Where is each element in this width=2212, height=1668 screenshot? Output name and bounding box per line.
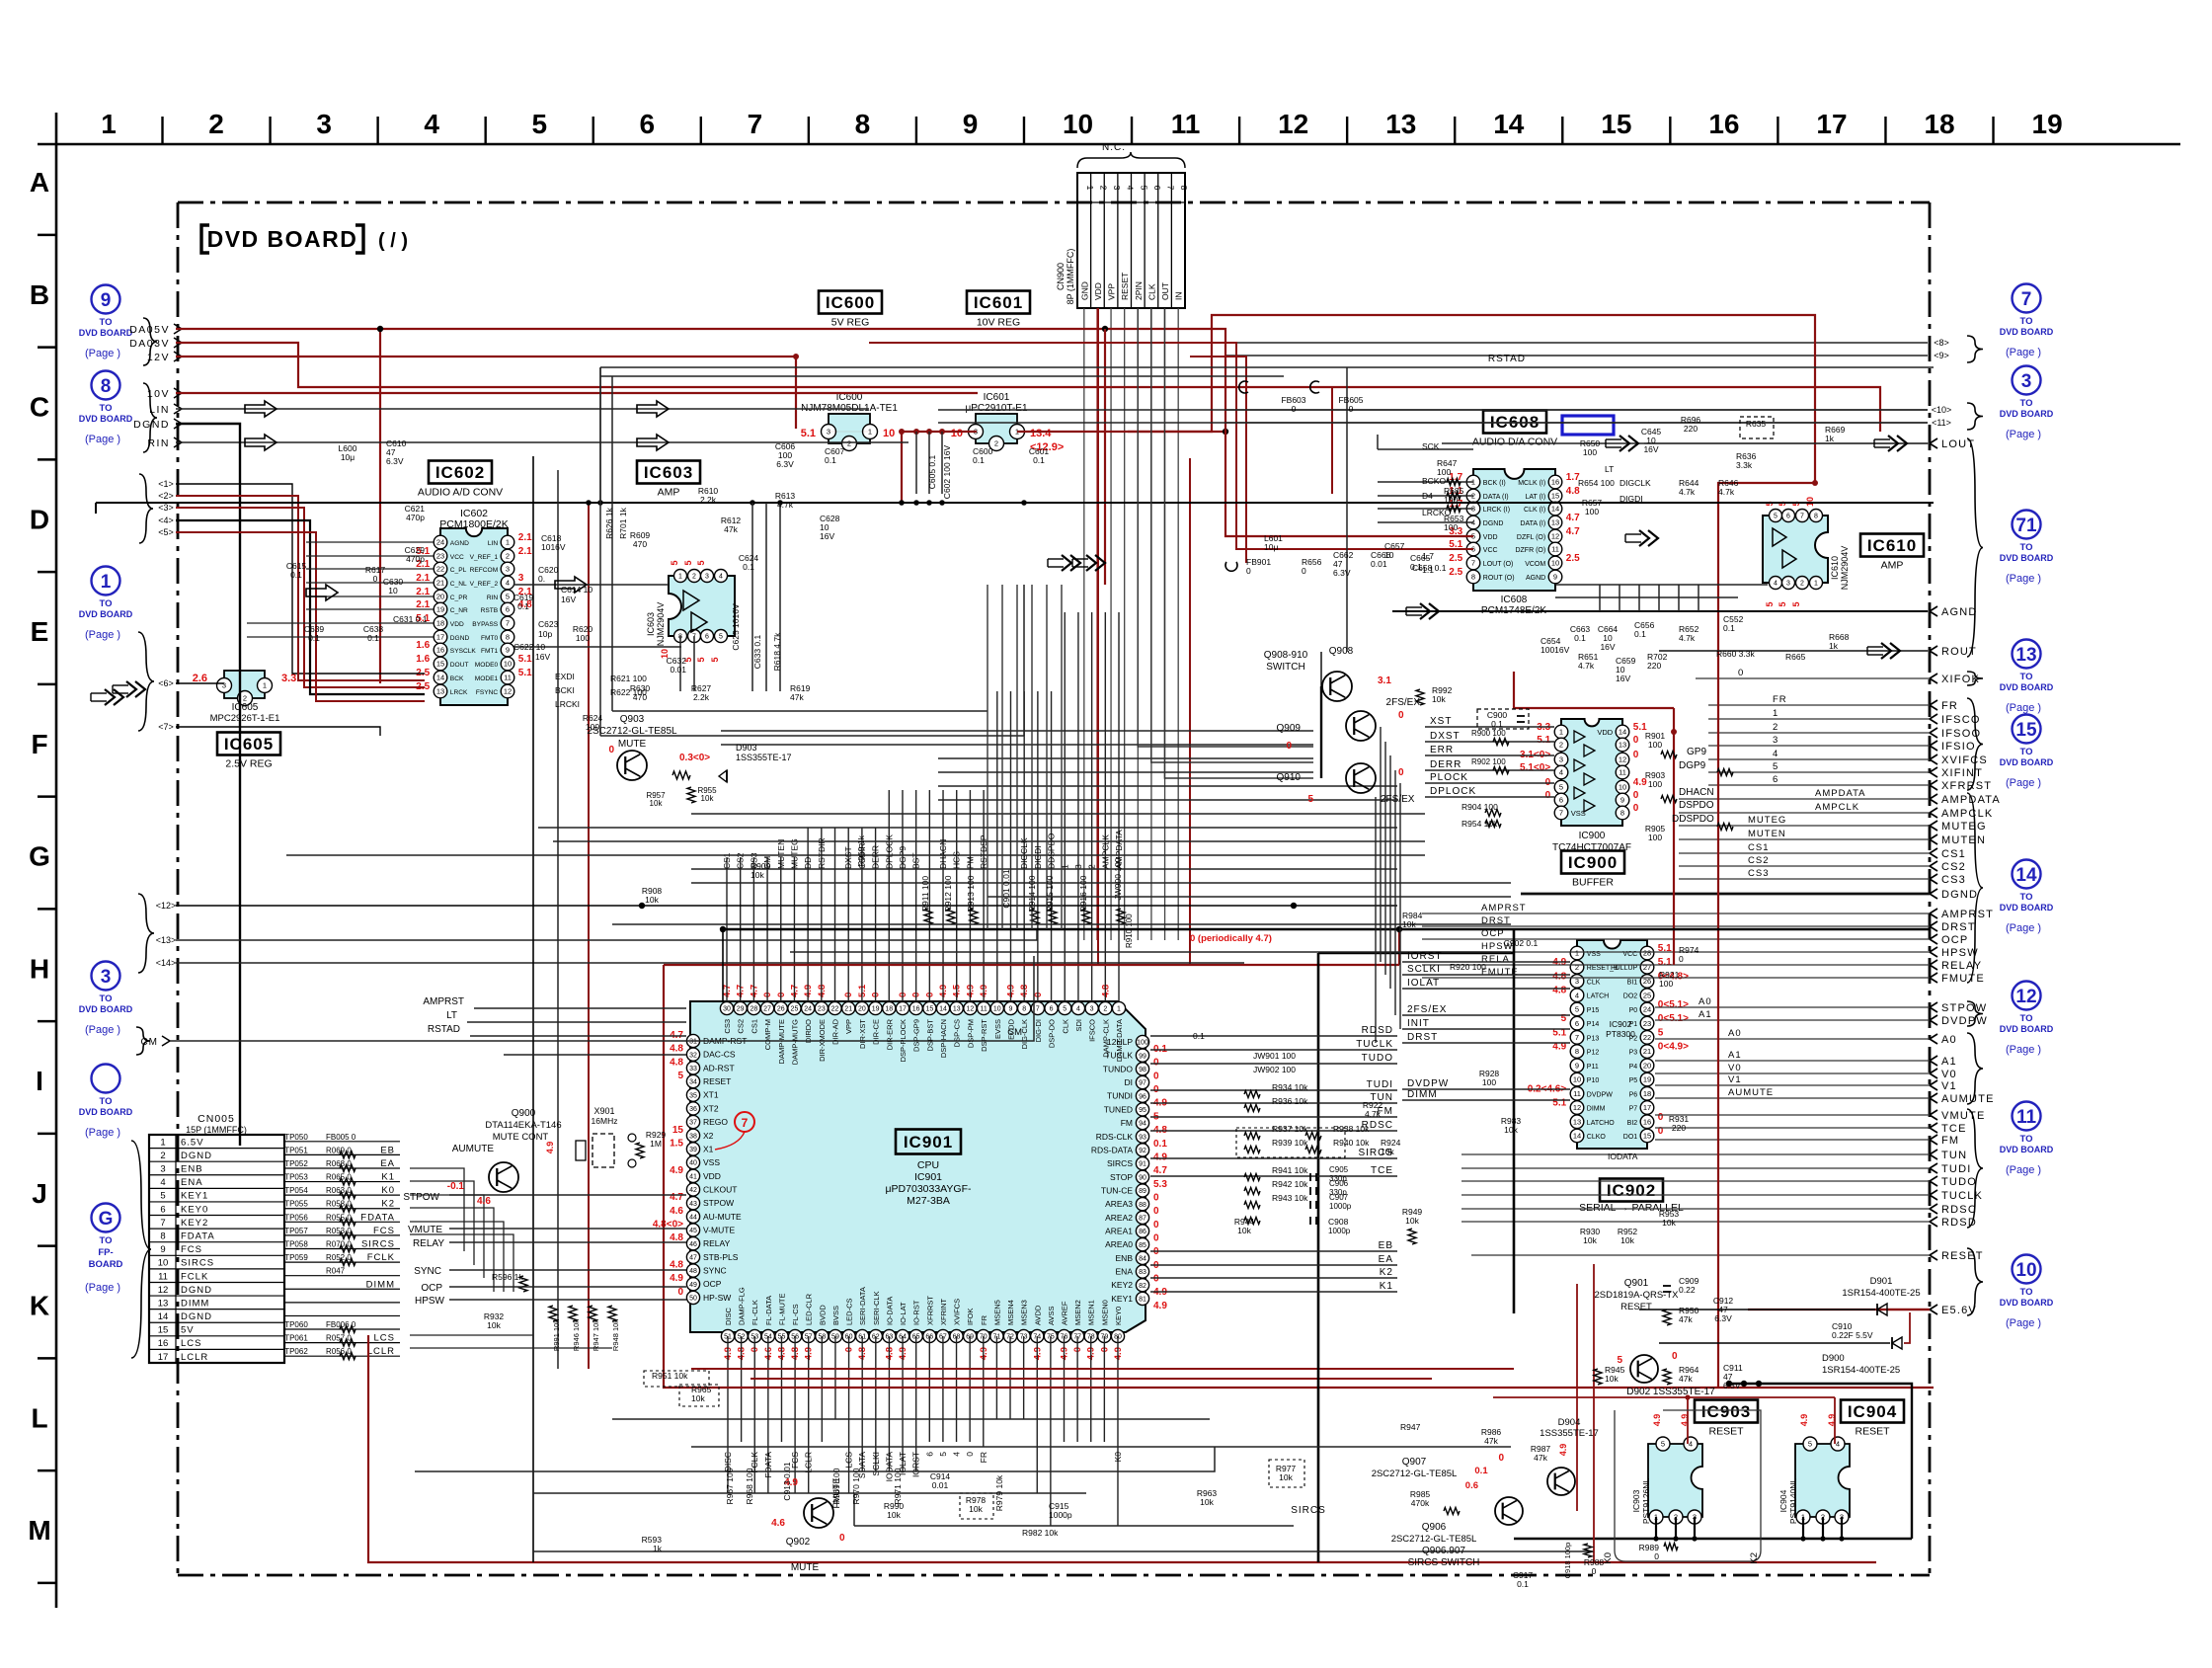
svg-text:6: 6: [1575, 1019, 1579, 1028]
svg-text:DIMM: DIMM: [366, 1279, 395, 1290]
svg-text:10k: 10k: [1405, 1216, 1419, 1226]
svg-text:14: 14: [1573, 1132, 1581, 1141]
svg-text:FL-DATA: FL-DATA: [764, 1296, 773, 1325]
svg-text:TUDI: TUDI: [1367, 1079, 1393, 1090]
svg-text:15P (1MMFFC): 15P (1MMFFC): [186, 1125, 247, 1135]
svg-text:5.1: 5.1: [1537, 735, 1550, 746]
svg-text:3: 3: [101, 967, 112, 988]
regulator IC605: [193, 671, 297, 724]
svg-text:CLKO: CLKO: [1587, 1134, 1607, 1141]
svg-text:4.8: 4.8: [1552, 986, 1566, 996]
svg-text:8: 8: [1814, 514, 1818, 520]
svg-text:2PIN: 2PIN: [1134, 281, 1144, 300]
svg-text:28: 28: [1643, 949, 1651, 958]
svg-text:13: 13: [1573, 1117, 1581, 1126]
svg-text:TUNDI: TUNDI: [1107, 1091, 1133, 1101]
svg-text:DAMP-FLG: DAMP-FLG: [738, 1287, 747, 1325]
svg-text:A: A: [30, 167, 49, 198]
svg-text:AREA0: AREA0: [1105, 1239, 1133, 1249]
svg-text:PM: PM: [965, 856, 975, 869]
svg-text:39: 39: [689, 1147, 697, 1153]
svg-text:GND: GND: [1079, 281, 1089, 300]
red ref circle 7: [735, 1112, 754, 1132]
svg-text:STB-PLS: STB-PLS: [703, 1252, 739, 1262]
labels middle area: [642, 551, 1699, 1245]
svg-text:AUMUTE: AUMUTE: [1728, 1087, 1774, 1098]
svg-text:FSYNC: FSYNC: [476, 689, 499, 696]
svg-text:3: 3: [222, 681, 226, 690]
svg-text:MUTEN: MUTEN: [1941, 834, 1986, 846]
svg-text:XFRRST: XFRRST: [1941, 780, 1992, 792]
component labels top-left area: [286, 395, 1850, 732]
svg-text:D: D: [30, 504, 49, 534]
svg-text:AVSS: AVSS: [1047, 1307, 1056, 1325]
svg-text:10k: 10k: [1662, 1218, 1676, 1228]
svg-text:SIRCS: SIRCS: [361, 1239, 395, 1250]
svg-text:47k: 47k: [790, 692, 804, 702]
svg-text:-0.1: -0.1: [447, 1181, 465, 1192]
regulator IC601: [951, 392, 1065, 453]
svg-text:95: 95: [1139, 1107, 1146, 1114]
svg-text:10k: 10k: [691, 1393, 705, 1403]
svg-text:CPU: CPU: [917, 1159, 939, 1171]
svg-text:DISC: DISC: [724, 1307, 733, 1325]
svg-text:AMPRST: AMPRST: [1481, 903, 1527, 913]
svg-text:4.9: 4.9: [545, 1142, 555, 1154]
svg-text:100: 100: [1659, 979, 1673, 989]
svg-text:FL-CLK: FL-CLK: [750, 1300, 759, 1325]
svg-text:ENA: ENA: [181, 1177, 203, 1188]
svg-text:3.3k: 3.3k: [1736, 460, 1753, 470]
svg-text:4.7k: 4.7k: [1679, 487, 1696, 497]
svg-text:1: 1: [1575, 949, 1579, 958]
transistor Q906: [1495, 1497, 1523, 1525]
svg-text:DGND: DGND: [450, 635, 470, 642]
svg-text:LCLR: LCLR: [804, 1452, 814, 1473]
black signal wires: [96, 354, 1934, 1562]
svg-text:100: 100: [576, 633, 590, 643]
svg-text:R971 100: R971 100: [893, 1468, 903, 1504]
label box IC605: [217, 733, 280, 770]
svg-text:BYPASS: BYPASS: [472, 621, 499, 628]
IC904 reset chip: [1778, 1414, 1850, 1524]
svg-text:DATA (I): DATA (I): [1520, 520, 1545, 527]
svg-text:AUDIO D/A CONV: AUDIO D/A CONV: [1472, 437, 1557, 448]
svg-text:1000p: 1000p: [1329, 1202, 1352, 1211]
svg-text:3: 3: [827, 428, 830, 437]
svg-text:0: 0: [1153, 1206, 1159, 1217]
svg-text:R902 100: R902 100: [1471, 757, 1506, 766]
svg-text:20: 20: [436, 593, 444, 601]
svg-text:4.7k: 4.7k: [777, 500, 794, 510]
svg-text:100: 100: [1585, 507, 1599, 516]
svg-text:10k: 10k: [650, 799, 664, 808]
svg-text:15: 15: [1601, 109, 1631, 139]
svg-text:TO: TO: [2019, 542, 2032, 553]
CN005 right-side resistor links: [284, 1133, 400, 1360]
svg-text:R053 0: R053 0: [326, 1227, 352, 1235]
svg-text:5: 5: [1774, 514, 1777, 520]
svg-text:IC601: IC601: [974, 293, 1023, 312]
svg-text:PCM1800E/2K: PCM1800E/2K: [439, 518, 508, 530]
svg-text:15: 15: [1643, 1132, 1651, 1141]
svg-text:VDD: VDD: [1483, 534, 1498, 541]
svg-text:RESET: RESET: [1620, 1302, 1652, 1312]
svg-text:(Page ): (Page ): [2006, 702, 2041, 714]
svg-text:2FS/EX: 2FS/EX: [1386, 697, 1421, 708]
svg-text:26: 26: [777, 1006, 785, 1013]
svg-text:DIMM: DIMM: [1587, 1106, 1606, 1113]
svg-text:5: 5: [1808, 1440, 1812, 1449]
label box IC603: [637, 461, 700, 499]
svg-text:DVD BOARD: DVD BOARD: [2000, 409, 2054, 419]
svg-text:A0: A0: [1728, 1028, 1742, 1039]
svg-text:8: 8: [1022, 1006, 1026, 1013]
svg-text:3: 3: [506, 565, 510, 574]
svg-text:LAT (I): LAT (I): [1525, 494, 1545, 501]
svg-text:MUTEG: MUTEG: [789, 838, 799, 869]
svg-text:EA: EA: [1379, 1254, 1393, 1265]
svg-text:100: 100: [1648, 779, 1662, 789]
svg-text:98: 98: [1139, 1067, 1146, 1073]
svg-text:V_REF_1: V_REF_1: [470, 554, 499, 561]
svg-text:6: 6: [1773, 774, 1778, 785]
svg-text:RESET: RESET: [1941, 1250, 1984, 1262]
svg-text:A1: A1: [1941, 1056, 1957, 1068]
svg-text:R915 100: R915 100: [1045, 875, 1055, 912]
svg-text:3: 3: [316, 109, 332, 139]
svg-text:5: 5: [1559, 783, 1563, 792]
svg-text:16V: 16V: [535, 652, 550, 662]
svg-text:NJM2904V: NJM2904V: [1840, 546, 1850, 591]
svg-text:ROUT (O): ROUT (O): [1483, 575, 1515, 582]
svg-text:19: 19: [872, 1006, 880, 1013]
svg-text:470: 470: [633, 539, 647, 549]
label box IC610: [1860, 534, 1924, 572]
svg-text:R959 1k: R959 1k: [856, 834, 866, 866]
svg-text:VDD: VDD: [1597, 728, 1613, 737]
svg-text:13: 13: [953, 1006, 961, 1013]
svg-text:LRCK: LRCK: [450, 689, 468, 696]
page ref 71: [2000, 511, 2054, 586]
svg-text:DVD BOARD: DVD BOARD: [207, 226, 358, 252]
CN900 wires down: [1084, 308, 1178, 940]
svg-text:5.1: 5.1: [1658, 957, 1672, 968]
svg-text:7: 7: [506, 619, 510, 628]
svg-text:6: 6: [1050, 1006, 1054, 1013]
svg-text:R065 0: R065 0: [326, 1173, 352, 1182]
E5.6V red feed: [1930, 1305, 1937, 1314]
title DVD BOARD: [201, 225, 408, 253]
svg-text:R916 100: R916 100: [1078, 875, 1088, 912]
svg-text:1M: 1M: [650, 1139, 662, 1149]
svg-text:8: 8: [1471, 573, 1475, 582]
left input signals group B: [129, 318, 182, 452]
svg-text:STPOW: STPOW: [1941, 1002, 1987, 1014]
svg-text:DVD BOARD: DVD BOARD: [79, 1004, 133, 1014]
svg-text:MUTEN: MUTEN: [776, 839, 786, 869]
svg-text:BCK (I): BCK (I): [1483, 480, 1506, 487]
svg-text:IFOK: IFOK: [966, 1308, 975, 1325]
svg-text:(Page ): (Page ): [2006, 1164, 2041, 1176]
svg-text:6: 6: [506, 605, 510, 614]
svg-text:R946 10k: R946 10k: [572, 1319, 581, 1351]
svg-text:R635: R635: [1746, 419, 1767, 429]
svg-text:B: B: [30, 279, 49, 310]
svg-text:DSP-DO: DSP-DO: [1048, 1019, 1057, 1048]
svg-text:2SC2712-GL-TE85L: 2SC2712-GL-TE85L: [1372, 1469, 1458, 1479]
svg-text:MUTEG: MUTEG: [1748, 815, 1786, 826]
svg-text:MODE0: MODE0: [475, 662, 499, 669]
svg-text:SIRCS: SIRCS: [181, 1258, 214, 1269]
svg-text:DIGDI: DIGDI: [1619, 494, 1643, 504]
svg-text:1.7: 1.7: [1422, 551, 1434, 561]
svg-text:(Page ): (Page ): [2006, 573, 2041, 585]
svg-text:TP057: TP057: [284, 1227, 308, 1235]
transistors Q908 Q909 Q910 switch: [1264, 646, 1453, 805]
svg-text:DVDPW: DVDPW: [1941, 1015, 1988, 1027]
CN005 to right long links: [410, 1168, 612, 1348]
svg-text:C_NR: C_NR: [450, 607, 468, 614]
svg-text:1: 1: [1814, 581, 1818, 588]
svg-text:10k: 10k: [1583, 1235, 1597, 1245]
svg-text:7: 7: [1166, 186, 1176, 191]
chevron arrows: [91, 436, 1907, 705]
svg-text:μPD703033AYGF-: μPD703033AYGF-: [886, 1183, 972, 1195]
svg-text:FL-MUTE: FL-MUTE: [777, 1294, 786, 1326]
svg-text:LRCKI: LRCKI: [555, 699, 580, 709]
svg-text:7: 7: [160, 1218, 165, 1229]
svg-text:IC603: IC603: [644, 463, 693, 482]
svg-text:2.2k: 2.2k: [700, 495, 717, 505]
svg-text:4: 4: [424, 109, 439, 139]
svg-text:32: 32: [689, 1052, 697, 1059]
svg-text:23: 23: [1643, 1019, 1651, 1028]
svg-text:9: 9: [1009, 1006, 1013, 1013]
svg-text:18: 18: [436, 619, 444, 628]
svg-text:470p: 470p: [406, 554, 425, 564]
svg-text:D900: D900: [1822, 1353, 1845, 1364]
svg-text:DVD BOARD: DVD BOARD: [79, 1107, 133, 1117]
svg-text:21: 21: [1643, 1047, 1651, 1056]
svg-text:0.1: 0.1: [308, 633, 320, 643]
svg-text:(Page ): (Page ): [85, 1024, 120, 1036]
svg-text:5: 5: [683, 560, 693, 565]
svg-text:0: 0: [1153, 1071, 1159, 1081]
svg-text:DIRDO: DIRDO: [804, 1019, 813, 1043]
svg-text:RELAY: RELAY: [413, 1238, 444, 1249]
svg-text:0.1: 0.1: [367, 633, 379, 643]
svg-text:4: 4: [952, 1452, 962, 1457]
svg-text:5: 5: [1765, 601, 1775, 606]
bundle resistors above IC901: [924, 909, 1125, 924]
svg-text:(Page ): (Page ): [2006, 1044, 2041, 1056]
svg-text:0.1: 0.1: [290, 570, 302, 580]
svg-text:10: 10: [883, 428, 895, 439]
svg-text:RESET: RESET: [703, 1076, 731, 1086]
svg-text:R920 100: R920 100: [1450, 962, 1486, 972]
svg-text:R910 100: R910 100: [1125, 913, 1134, 948]
svg-text:BCKO: BCKO: [1422, 476, 1446, 486]
svg-text:6: 6: [1152, 186, 1162, 191]
svg-text:1: 1: [1117, 1006, 1121, 1013]
svg-text:6: 6: [160, 1204, 165, 1215]
svg-text:1: 1: [678, 574, 682, 581]
svg-text:IO-DATA: IO-DATA: [885, 1297, 894, 1325]
svg-text:3.3: 3.3: [281, 673, 296, 684]
svg-text:IFSIO: IFSIO: [1941, 741, 1976, 753]
svg-text:TP058: TP058: [284, 1240, 308, 1249]
svg-text:RDS-DATA: RDS-DATA: [1091, 1145, 1134, 1154]
svg-text:7: 7: [1575, 1033, 1579, 1042]
svg-text:LOUT (O): LOUT (O): [1483, 561, 1514, 568]
svg-text:40: 40: [689, 1160, 697, 1167]
svg-text:4.7k: 4.7k: [1365, 1109, 1382, 1119]
svg-text:DRST: DRST: [1407, 1032, 1438, 1043]
svg-text:2: 2: [1103, 1006, 1107, 1013]
svg-text:H: H: [30, 953, 49, 984]
svg-text:44: 44: [689, 1214, 697, 1221]
svg-text:R934 10k: R934 10k: [1272, 1082, 1308, 1092]
svg-text:RSTB: RSTB: [481, 607, 499, 614]
svg-text:R991 10k: R991 10k: [552, 1319, 561, 1351]
svg-text:R063 0: R063 0: [326, 1186, 352, 1195]
svg-text:29: 29: [737, 1006, 745, 1013]
svg-text:<4>: <4>: [158, 516, 174, 525]
svg-text:7: 7: [1036, 1006, 1040, 1013]
svg-text:2.1: 2.1: [518, 546, 532, 557]
svg-text:E: E: [31, 616, 49, 647]
svg-text:KEY2: KEY2: [181, 1218, 208, 1229]
svg-text:11: 11: [504, 674, 512, 682]
svg-text:DIR-XST: DIR-XST: [858, 1019, 867, 1049]
svg-text:R056 0: R056 0: [326, 1347, 352, 1356]
svg-text:6: 6: [924, 1452, 934, 1457]
svg-text:3: 3: [160, 1164, 165, 1175]
svg-text:CN900: CN900: [1056, 263, 1066, 290]
svg-text:DVD BOARD: DVD BOARD: [2000, 1145, 2054, 1154]
svg-text:PT8300: PT8300: [1606, 1029, 1635, 1039]
svg-text:Q902: Q902: [786, 1537, 811, 1548]
svg-text:7: 7: [1559, 809, 1563, 818]
svg-text:TP052: TP052: [284, 1159, 308, 1168]
svg-text:14: 14: [436, 674, 444, 682]
svg-text:5: 5: [696, 560, 706, 565]
svg-text:0.1: 0.1: [1634, 629, 1646, 639]
svg-text:0.1: 0.1: [1474, 1466, 1488, 1476]
svg-text:6.3V: 6.3V: [1723, 1381, 1741, 1390]
svg-text:DVD BOARD: DVD BOARD: [2000, 1024, 2054, 1034]
svg-text:10k: 10k: [1605, 1374, 1619, 1384]
svg-text:5: 5: [938, 1452, 948, 1457]
svg-text:5: 5: [1791, 601, 1801, 606]
svg-text:LCS: LCS: [181, 1338, 201, 1349]
svg-text:0.1: 0.1: [825, 455, 836, 465]
svg-text:91: 91: [1139, 1161, 1146, 1168]
svg-text:XT1: XT1: [703, 1090, 719, 1100]
svg-text:13: 13: [436, 687, 444, 696]
svg-text:AMPRST: AMPRST: [1941, 909, 1994, 920]
svg-text:R052 0: R052 0: [326, 1253, 352, 1262]
svg-text:4.8: 4.8: [670, 1057, 683, 1068]
page ref 1: [79, 567, 133, 642]
svg-text:BI2: BI2: [1627, 1120, 1638, 1127]
svg-text:DXST: DXST: [843, 846, 853, 869]
svg-text:CS1: CS1: [1748, 842, 1769, 853]
svg-text:LT: LT: [1605, 464, 1614, 474]
svg-text:AMPCLK: AMPCLK: [1100, 834, 1110, 869]
svg-text:17: 17: [1816, 109, 1847, 139]
svg-text:8: 8: [1620, 809, 1624, 818]
svg-text:10: 10: [993, 1006, 1001, 1013]
svg-text:R941 10k: R941 10k: [1272, 1165, 1308, 1175]
svg-text:A0: A0: [1698, 996, 1712, 1007]
svg-text:PST9126NL: PST9126NL: [1641, 1478, 1651, 1525]
svg-text:1: 1: [868, 428, 872, 437]
svg-text:OCP: OCP: [421, 1283, 442, 1294]
svg-text:R940 10k: R940 10k: [1333, 1138, 1370, 1148]
svg-text:SIRCS: SIRCS: [1107, 1158, 1133, 1168]
svg-text:AMP: AMP: [658, 487, 680, 499]
svg-text:SYNC: SYNC: [414, 1266, 441, 1277]
svg-text:2FS/EX: 2FS/EX: [1381, 794, 1415, 805]
svg-text:KEY0: KEY0: [181, 1204, 208, 1215]
IC610 amp chip: [1763, 497, 1850, 607]
svg-text:RDS-CLK: RDS-CLK: [1096, 1132, 1134, 1142]
svg-text:15: 15: [158, 1325, 169, 1336]
svg-text:INIT: INIT: [1407, 1018, 1430, 1029]
svg-text:KEY0: KEY0: [1114, 1307, 1123, 1325]
svg-text:K0: K0: [1603, 1552, 1614, 1564]
label box IC902: [1600, 1179, 1663, 1202]
svg-text:7: 7: [1471, 559, 1475, 568]
svg-text:4: 4: [1575, 991, 1579, 999]
svg-text:(Page ): (Page ): [85, 1127, 120, 1139]
svg-text:9: 9: [101, 290, 112, 311]
svg-text:DPLOCK: DPLOCK: [1430, 786, 1476, 797]
svg-text:TO: TO: [99, 317, 112, 328]
svg-text:AGND: AGND: [450, 540, 469, 547]
svg-text:0.1: 0.1: [1410, 562, 1422, 572]
svg-text:47k: 47k: [1679, 1314, 1693, 1324]
svg-text:99: 99: [1139, 1053, 1146, 1060]
svg-text:D904: D904: [1558, 1417, 1581, 1428]
svg-text:10k: 10k: [487, 1320, 501, 1330]
svg-text:TP050: TP050: [284, 1133, 308, 1142]
svg-text:A1: A1: [1728, 1050, 1742, 1061]
svg-text:24: 24: [804, 1006, 812, 1013]
svg-text:12: 12: [1619, 755, 1626, 764]
svg-text:1: 1: [506, 538, 510, 547]
svg-text:V0: V0: [1941, 1069, 1957, 1080]
svg-text:R937 10k: R937 10k: [1272, 1124, 1308, 1134]
svg-text:TP054: TP054: [284, 1186, 308, 1195]
svg-text:C907: C907: [1329, 1193, 1349, 1202]
svg-text:EXDI: EXDI: [555, 672, 575, 681]
svg-text:IC902: IC902: [1607, 1181, 1656, 1200]
red reset feed: [1493, 1396, 1835, 1398]
svg-text:2: 2: [847, 439, 851, 448]
svg-text:1: 1: [1559, 728, 1563, 737]
svg-text:R943 10k: R943 10k: [1272, 1193, 1308, 1203]
svg-text:RESET: RESET: [1708, 1426, 1744, 1438]
label box IC608: [1472, 411, 1557, 448]
FB curls: [1225, 381, 1319, 571]
svg-text:DIG-DI: DIG-DI: [1034, 1019, 1043, 1042]
svg-text:14: 14: [1551, 505, 1559, 514]
svg-text:IC605: IC605: [224, 735, 274, 754]
svg-text:DHACN: DHACN: [1679, 787, 1714, 798]
